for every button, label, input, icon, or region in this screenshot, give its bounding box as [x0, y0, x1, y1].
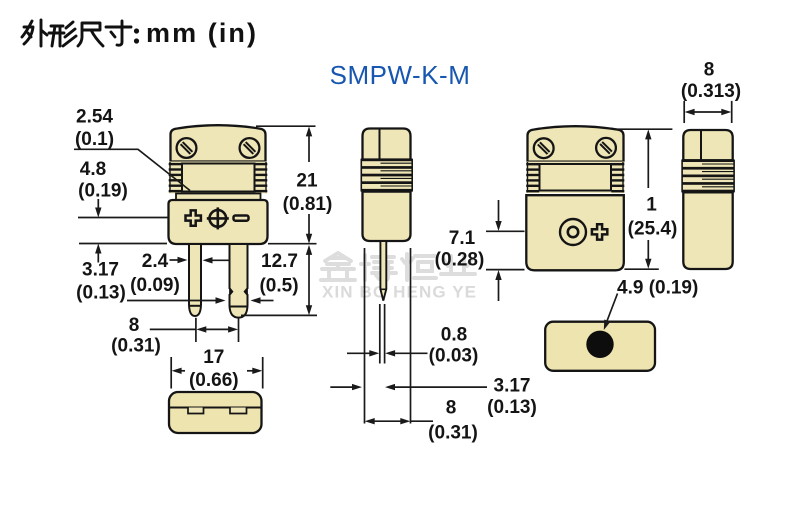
socket inner circle: [568, 227, 578, 237]
watermark char xin: [321, 253, 355, 280]
cap: [528, 126, 624, 161]
far-right side view: [682, 130, 735, 269]
dim 17 ticks: [170, 357, 172, 389]
watermark char heng: [402, 254, 436, 280]
lower body: [683, 192, 732, 269]
left ribs: [169, 163, 182, 192]
right ribs: [611, 163, 624, 192]
socket outer circle: [560, 219, 586, 245]
cap: [363, 129, 411, 160]
dim 1 (25.4) top extension: [614, 128, 672, 130]
svg-text:(0.31): (0.31): [111, 336, 161, 357]
watermark char bo: [361, 253, 396, 280]
left rib outer edge: [169, 162, 171, 193]
left front view: [169, 125, 268, 317]
svg-text:21: 21: [296, 171, 318, 192]
dim 8 (0.313) arrows: [685, 109, 695, 115]
cap: [683, 130, 732, 160]
split line: [169, 407, 262, 409]
svg-text:(0.81): (0.81): [283, 194, 333, 215]
fullwidth colon: [134, 28, 139, 33]
svg-text:2.4: 2.4: [142, 251, 169, 272]
rib block base: [527, 162, 625, 194]
dim 4.9 leader: [607, 294, 618, 322]
dim 12.7 arrow line: [306, 245, 312, 255]
lower body: [169, 200, 268, 244]
blade extension lines: [379, 304, 381, 364]
screw right: [240, 138, 260, 158]
left ribs: [526, 163, 539, 192]
center recessed plate: [182, 164, 255, 192]
dim 3.17 up arrow: [95, 244, 101, 254]
svg-text:1: 1: [646, 195, 657, 216]
dimensions: [74, 60, 741, 444]
svg-text:SMPW-K-M: SMPW-K-M: [330, 60, 471, 90]
bottom-left view: [169, 392, 262, 433]
body: [169, 392, 262, 433]
hole: [586, 331, 613, 358]
svg-text:8: 8: [446, 398, 457, 419]
svg-text:(0.31): (0.31): [428, 423, 478, 444]
watermark char ye: [441, 256, 475, 274]
dim 21 arrow line: [306, 126, 312, 136]
svg-text:4.8: 4.8: [80, 159, 106, 180]
char xing: [49, 22, 76, 46]
body: [545, 322, 655, 371]
svg-text:(0.09): (0.09): [130, 275, 180, 296]
cap: [171, 125, 266, 161]
svg-text:3.17: 3.17: [82, 260, 119, 281]
dim 2.54 leader: [74, 149, 190, 190]
svg-text:(0.28): (0.28): [435, 250, 485, 271]
screw left: [534, 138, 554, 158]
dim 1 (25.4) bottom extension: [624, 268, 658, 270]
right pin: [230, 244, 248, 318]
svg-text:(25.4): (25.4): [628, 219, 678, 240]
dim 8 (0.313) ticks: [683, 101, 685, 123]
mid body extension lines: [364, 248, 366, 424]
right rib outer edge: [265, 162, 267, 193]
svg-text:XIN BO HENG YE: XIN BO HENG YE: [322, 283, 478, 302]
dim 4.8 reference line: [78, 217, 169, 219]
rib inner lines: [381, 163, 412, 186]
middle side view: [361, 129, 413, 301]
rib block: [361, 160, 413, 193]
minus symbol: [234, 216, 249, 221]
dim 8 pin spacing ticks: [195, 318, 197, 342]
svg-text:12.7: 12.7: [261, 251, 298, 272]
dim 4.8 down arrow: [97, 199, 99, 208]
svg-text:(0.03): (0.03): [429, 346, 479, 367]
svg-text:mm (in): mm (in): [146, 18, 256, 48]
cap parting line: [700, 130, 702, 160]
right front view: [526, 126, 624, 270]
svg-text:(0.66): (0.66): [189, 370, 239, 391]
rib side edges: [360, 159, 362, 192]
dim 0.8 arrows: [347, 352, 371, 354]
svg-text:0.8: 0.8: [441, 325, 467, 346]
dim 2.4 arrows: [170, 259, 179, 261]
slot right: [230, 408, 247, 414]
blade pin: [380, 241, 386, 301]
plus symbol: [186, 210, 201, 225]
svg-text:(0.5): (0.5): [259, 276, 298, 297]
pin tip reference line: [241, 314, 317, 316]
svg-text:(0.19): (0.19): [78, 181, 128, 202]
dim 7.1 arrows: [498, 200, 500, 222]
right ribs: [254, 163, 267, 192]
screw left: [177, 138, 197, 158]
char chi: [78, 23, 103, 46]
dim 21 bottom extension line: [268, 243, 317, 245]
dim 8 pin spacing arrows: [150, 328, 196, 330]
dim 8 mid arrows: [365, 418, 375, 424]
svg-text:(0.13): (0.13): [76, 283, 126, 304]
svg-text:17: 17: [203, 347, 224, 368]
dim 3.17 mid arrows: [330, 386, 353, 388]
svg-text:(0.313): (0.313): [681, 81, 741, 102]
svg-text:8: 8: [129, 315, 140, 336]
lower body: [526, 195, 624, 270]
slot left: [188, 408, 204, 414]
dim 7.1 reference lines: [486, 230, 525, 232]
bottom-right view: [545, 322, 655, 371]
cap parting line: [379, 129, 381, 160]
svg-text:4.9 (0.19): 4.9 (0.19): [617, 278, 698, 299]
char cun: [106, 21, 131, 45]
lower body: [363, 192, 411, 241]
collar: [176, 194, 261, 201]
svg-text:7.1: 7.1: [449, 228, 476, 249]
dim 1 (25.4) arrow line: [645, 129, 651, 139]
char wai: [22, 20, 47, 46]
screw right: [596, 138, 616, 158]
rib block: [682, 160, 735, 193]
center recessed plate: [540, 164, 612, 191]
svg-text:(0.1): (0.1): [75, 129, 114, 150]
rib block base: [169, 162, 267, 194]
svg-text:8: 8: [704, 60, 715, 81]
left pin: [189, 244, 201, 316]
header 外形尺寸：mm（in）: [22, 18, 256, 48]
svg-text:2.54: 2.54: [76, 106, 113, 127]
dim 3.17 reference line: [79, 243, 167, 245]
dim 21 top extension line: [256, 125, 316, 127]
circle-cross symbol: [210, 210, 227, 227]
svg-text:3.17: 3.17: [494, 376, 531, 397]
svg-text:(0.13): (0.13): [487, 397, 537, 418]
right pin width arrows: [127, 300, 217, 302]
dim 17 arrows: [172, 368, 182, 374]
plus symbol: [592, 224, 607, 239]
watermark logo 鑫博恒业 XIN BO HENG YE: [321, 253, 478, 302]
